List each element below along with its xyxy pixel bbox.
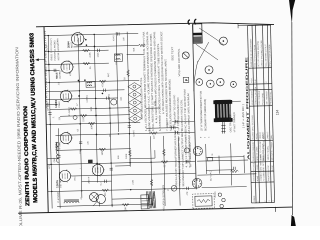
svg-text:OSC TRIMMER: OSC TRIMMER — [229, 114, 232, 132]
svg-text:4: 4 — [273, 200, 275, 201]
svg-text:GENERATOR FREQUENCY: GENERATOR FREQUENCY — [252, 141, 255, 161]
junction J21 — [130, 189, 131, 190]
IF transformer T2 coils — [87, 82, 91, 86]
resistor R10 — [127, 70, 130, 77]
output transformer winding — [64, 201, 79, 203]
IF transformer T1 coils — [116, 55, 121, 60]
dial pulley A — [219, 37, 227, 45]
svg-text:DET-AF: DET-AF — [59, 179, 62, 188]
pointer box P — [183, 77, 189, 82]
svg-text:150K: 150K — [98, 52, 100, 58]
svg-text:2ND IF: 2ND IF — [88, 176, 90, 184]
svg-text:CHECK TRACKING LOW END: CHECK TRACKING LOW END — [260, 40, 264, 67]
junction cluster V1 — [81, 43, 83, 45]
table column line 2 — [251, 181, 274, 184]
svg-text:ADJUST TRIMMERS: ADJUST TRIMMERS — [251, 90, 254, 105]
scan artifact: gutter wedge top right — [289, 0, 295, 24]
junction J12 — [81, 190, 82, 191]
candohm resistor element — [197, 199, 210, 202]
capacitor C12 — [57, 155, 60, 157]
staircase wire — [115, 150, 155, 166]
capacitor C3 — [104, 89, 106, 92]
svg-text:MAX. ANTENNA OUTPUT: MAX. ANTENNA OUTPUT — [264, 43, 268, 66]
table column line 9 — [249, 67, 272, 70]
svg-text:OSC. TRIMMER: OSC. TRIMMER — [259, 90, 261, 105]
junction J6 — [50, 164, 51, 165]
wire run v11 — [47, 161, 195, 164]
wire run v17 — [172, 120, 194, 122]
resistor R15 — [150, 179, 153, 186]
frame left border — [18, 207, 292, 213]
tuning gang mounting ear 2 — [194, 19, 196, 24]
trimmer circle 2 — [206, 80, 214, 88]
wire stub g — [146, 127, 178, 130]
table column line 1 — [252, 201, 275, 204]
junction J7 — [51, 191, 52, 192]
svg-text:600 KC: 600 KC — [263, 132, 265, 139]
junction J8 — [93, 34, 94, 35]
wire run v9 — [55, 132, 194, 135]
wire run v10 — [56, 149, 131, 151]
svg-text:.1 MFD: .1 MFD — [257, 164, 259, 171]
filter cap circle 3 — [220, 204, 223, 207]
tube V3 12AT6 det-af — [60, 89, 73, 102]
svg-text:180K: 180K — [126, 153, 128, 159]
resistor R16 — [163, 149, 166, 156]
wire run v4 — [45, 80, 139, 82]
junction J1 — [47, 35, 48, 36]
wire stub h — [146, 107, 160, 109]
junction J14 — [110, 162, 111, 163]
tuning gang can band — [193, 33, 202, 36]
wire bus h8 — [151, 136, 153, 206]
frame right border — [36, 21, 274, 30]
capacitor C5 — [175, 120, 177, 123]
junction J24 — [164, 188, 165, 189]
corner tick below border — [274, 207, 276, 212]
svg-text:22K: 22K — [123, 36, 125, 40]
svg-text:56K: 56K — [133, 47, 135, 51]
wire run v14 — [57, 204, 152, 206]
table column line 7 — [249, 88, 272, 91]
svg-text:CONV.: CONV. — [59, 101, 61, 108]
junction J16 — [95, 98, 96, 99]
power wiring branch 4 — [243, 155, 245, 173]
choke coil near V4 — [56, 142, 58, 162]
wire bus h3 — [78, 38, 82, 198]
socket 12BE6 pictorial — [192, 178, 202, 188]
dial pulley diamond 2 — [128, 106, 141, 114]
capacitor C14 — [105, 180, 107, 183]
table column line 8 — [249, 83, 272, 86]
dial pulley diamond 4 — [128, 90, 141, 98]
wire stub e — [112, 197, 152, 200]
dial pulley B — [205, 66, 213, 74]
rotated scanned page content — [14, 17, 293, 231]
speaker magnet circle — [89, 192, 98, 201]
tube V6 socket circle — [92, 163, 105, 176]
junction J26 — [179, 173, 180, 174]
svg-text:2.2M: 2.2M — [133, 180, 135, 185]
svg-text:AVC: AVC — [107, 72, 110, 77]
dial cord run 2 — [197, 42, 209, 62]
svg-text:12BE6: 12BE6 — [54, 99, 58, 108]
svg-text:ADJ.: ADJ. — [250, 77, 253, 83]
dark component blob — [88, 160, 93, 164]
svg-text:NONE: NONE — [257, 175, 259, 181]
junction J25 — [178, 161, 179, 162]
wire run v12 — [71, 173, 195, 176]
junction J15 — [111, 204, 112, 205]
svg-text:470K: 470K — [70, 71, 72, 77]
svg-text:MAX. OUTPUT I-F ALIGN: MAX. OUTPUT I-F ALIGN — [253, 44, 257, 67]
capacitor C4 — [107, 97, 109, 100]
wire run v5 — [45, 90, 124, 92]
junction J2 — [48, 51, 49, 52]
svg-text:I-F ANT TRIMMER: I-F ANT TRIMMER — [233, 112, 236, 132]
svg-text:GEN. COUPLING: GEN. COUPLING — [253, 163, 255, 171]
svg-text:LOOP: LOOP — [272, 164, 274, 170]
power wiring branch 3 — [230, 143, 233, 185]
svg-text:2: 2 — [265, 201, 267, 202]
tuning gang small circle — [111, 99, 117, 105]
svg-text:40+40: 40+40 — [215, 191, 217, 198]
trimmer circle 4 — [230, 81, 236, 87]
table notch — [237, 23, 239, 28]
svg-text:10MEG: 10MEG — [91, 122, 93, 130]
scan artifact: gutter line — [291, 22, 294, 215]
wire run v15 — [60, 115, 130, 117]
capacitor C10 — [110, 168, 113, 170]
line resistor — [230, 170, 238, 173]
loop antenna lead above frame — [35, 58, 45, 61]
wire bus h2 — [58, 128, 60, 208]
tube V5 12BE6 converter — [59, 169, 72, 182]
svg-text:GRID OF 12BE6: GRID OF 12BE6 — [256, 147, 258, 161]
frame inner divider (schematic/pictorial) — [192, 24, 196, 189]
output transformer internal lines — [141, 198, 148, 206]
osc transformer top wire — [231, 100, 241, 102]
wire run v3 — [45, 63, 109, 64]
trimmer circle 3 — [216, 78, 224, 86]
wire bus h10 — [179, 138, 181, 206]
filter cap circle 1 — [218, 193, 221, 196]
svg-text:P-M SPKR: P-M SPKR — [58, 191, 60, 202]
junction J3 — [48, 64, 49, 65]
svg-text:RECHECK ALL: RECHECK ALL — [269, 91, 272, 104]
wire run v6 — [46, 98, 118, 100]
wire bus h9 — [164, 136, 166, 206]
svg-text:150MA: 150MA — [56, 38, 59, 46]
svg-text:600-1620 KC SWEEP: 600-1620 KC SWEEP — [271, 141, 273, 160]
capacitor C11 — [48, 113, 51, 115]
table row line 2 — [252, 25, 256, 202]
speaker cone lines — [91, 194, 100, 207]
capacitor C7 — [186, 160, 188, 163]
wire bus h1 — [48, 36, 52, 209]
ballast box — [208, 158, 213, 161]
junction J11 — [80, 149, 81, 150]
svg-text:12AT6: 12AT6 — [55, 180, 59, 188]
capacitor C9 — [79, 142, 82, 144]
svg-text:3.3MEG: 3.3MEG — [87, 95, 89, 103]
capacitor C16 — [171, 126, 173, 129]
junction J10 — [79, 90, 80, 91]
frame top border — [44, 27, 48, 213]
svg-text:FINAL TOUCH-UP ALIGN: FINAL TOUCH-UP ALIGN — [268, 44, 272, 66]
svg-text:I-F AMP: I-F AMP — [58, 141, 61, 150]
svg-text:3: 3 — [269, 200, 271, 201]
volume control pot — [182, 52, 189, 59]
filter cap circle 2 — [222, 198, 225, 201]
svg-text:47K: 47K — [88, 140, 90, 144]
svg-text:455 KC: 455 KC — [256, 132, 258, 139]
wire stub f — [127, 53, 144, 55]
svg-text:1400 KC: 1400 KC — [267, 131, 269, 139]
power wiring run 2b — [202, 187, 247, 188]
capacitor C1 — [117, 32, 119, 35]
svg-text:HTR: HTR — [49, 164, 51, 169]
IF transformer T2 box — [86, 82, 95, 88]
resistor R12 — [161, 161, 168, 164]
junction J27 — [118, 133, 119, 134]
svg-text:LOOP: LOOP — [46, 44, 48, 51]
dial pulley diamond 5 — [128, 82, 141, 90]
svg-text:47K: 47K — [187, 191, 189, 195]
svg-text:OSC: OSC — [74, 176, 76, 181]
output transformer hatching — [146, 191, 155, 208]
wire run v1 — [44, 33, 138, 35]
junction extra — [78, 80, 80, 82]
svg-text:ANT. TRIMMER: ANT. TRIMMER — [265, 90, 268, 104]
svg-text:2200: 2200 — [83, 116, 85, 122]
resistor R5 — [88, 122, 95, 125]
svg-text:OSC: OSC — [54, 157, 56, 162]
wire stub d — [82, 180, 112, 183]
grid cap small circle — [73, 115, 77, 119]
svg-text:SET OSC. RANGE HIGH END: SET OSC. RANGE HIGH END — [257, 40, 261, 67]
power wiring branch 2 — [218, 156, 220, 174]
resistor R1 — [83, 49, 90, 52]
wire run v8 — [46, 122, 140, 124]
power wiring run 2 — [197, 174, 256, 175]
table row line 6 — [271, 25, 275, 202]
svg-text:LOOP: LOOP — [268, 165, 270, 171]
tube V1 35W4 rectifier — [71, 32, 85, 46]
svg-text:50C5: 50C5 — [55, 72, 59, 79]
socket 35W4 pictorial — [193, 146, 202, 155]
wire stub a — [45, 69, 59, 71]
output transformer box — [141, 195, 149, 209]
svg-text:RECT.: RECT. — [71, 41, 73, 48]
capacitor C6 — [176, 131, 178, 134]
junction J19 — [129, 133, 130, 134]
junction J22 — [151, 203, 152, 204]
table row line 3 — [256, 25, 260, 202]
tuning gang can body — [193, 24, 202, 43]
svg-text:RADIATED: RADIATED — [267, 171, 270, 181]
capacitor C13 — [54, 69, 56, 72]
candohm dashed outline — [193, 194, 215, 209]
svg-text:REPEAT STEP ABOVE: REPEAT STEP ABOVE — [262, 140, 265, 161]
power wiring run 1b — [206, 156, 244, 159]
wire bus h5 — [110, 97, 112, 207]
tube V2 50C5 output — [61, 60, 75, 74]
resistor R11 — [150, 132, 157, 135]
junction J9 — [79, 81, 80, 82]
tuning gang mounting ear 1 — [188, 20, 190, 25]
wire run v2 — [45, 50, 109, 51]
scan artifact: gutter blob bottom — [291, 215, 296, 226]
resistor R2 — [83, 62, 90, 65]
IF transformer T1 box — [114, 54, 122, 62]
wire run v13 — [48, 188, 196, 191]
svg-text:1MEG: 1MEG — [102, 149, 104, 156]
resistor R13 — [80, 114, 87, 117]
svg-text:B+ 115V: B+ 115V — [48, 102, 50, 111]
wire bus h4 — [94, 34, 97, 182]
dial cord run 1 — [196, 44, 218, 61]
svg-text:OPER.: OPER. — [254, 195, 256, 202]
svg-text:MOTOR SWITCH: MOTOR SWITCH — [58, 44, 60, 60]
junction J23 — [150, 161, 151, 162]
capacitor C8 — [187, 187, 189, 190]
svg-text:33K: 33K — [125, 206, 127, 210]
dial cord run 3 — [199, 28, 224, 46]
resistor R7 — [102, 189, 109, 192]
output transformer core — [64, 200, 79, 201]
power wire y170 — [206, 169, 233, 172]
table row line 5 — [267, 25, 271, 202]
svg-text:100K: 100K — [91, 106, 93, 112]
osc transformer pictorial can — [213, 100, 232, 122]
tube V4 12BA6 if amp — [60, 131, 73, 144]
resistor R9 — [129, 150, 132, 157]
svg-text:1400 KC SIGNAL: 1400 KC SIGNAL — [266, 146, 269, 161]
svg-text:RADIO DIAL SETTING: RADIO DIAL SETTING — [251, 114, 255, 139]
table row line 4 — [263, 25, 267, 202]
trimmer circle 1 — [196, 79, 203, 86]
svg-text:35W4 SOCKET: 35W4 SOCKET — [190, 142, 192, 160]
resistor R6 — [99, 148, 106, 151]
svg-text:OUTPUT: OUTPUT — [60, 69, 62, 79]
svg-text:IF 455KC: IF 455KC — [69, 106, 71, 116]
capacitor C15 — [128, 126, 131, 128]
wire bus h7 — [127, 32, 130, 167]
svg-text:DIAL: DIAL — [270, 135, 273, 139]
svg-text:DUMMY ANTENNA: DUMMY ANTENNA — [252, 172, 255, 181]
wire run v16 — [73, 45, 138, 46]
svg-text:ROCK GANG: ROCK GANG — [261, 93, 264, 105]
svg-text:220K: 220K — [90, 52, 92, 58]
svg-text:117 V. A.C.: 117 V. A.C. — [209, 170, 212, 181]
line capacitor — [233, 167, 235, 170]
osc transformer stem — [221, 122, 225, 134]
pilot small circle — [184, 148, 189, 153]
speaker frame circle — [96, 194, 105, 203]
junction J28 — [95, 108, 96, 109]
power wiring run 1 — [197, 160, 248, 161]
svg-text:GANG FULLY OPEN: GANG FULLY OPEN — [254, 86, 257, 104]
dial pulley diamond 1 — [129, 114, 142, 122]
junction J5 — [50, 124, 51, 125]
resistor R3 — [99, 80, 106, 83]
candohm resistor box — [195, 196, 212, 206]
svg-text:134: 134 — [276, 110, 280, 116]
tuning gang can base shade — [193, 36, 201, 42]
table top right edge — [238, 24, 270, 27]
dial pulley diamond 3 — [128, 98, 141, 106]
wire bus h6 — [116, 32, 118, 132]
svg-text:470K: 470K — [102, 82, 104, 88]
power wiring branch 1 — [205, 144, 208, 174]
table column line 6 — [249, 105, 272, 108]
junction J4 — [49, 82, 50, 83]
table column line 4 — [251, 161, 274, 164]
svg-text:OSCILLATOR B+ SECTION NOTE: OSCILLATOR B+ SECTION NOTE — [162, 185, 166, 211]
junction J20 — [129, 162, 130, 163]
resistor R4 — [70, 108, 77, 111]
svg-text:35W4: 35W4 — [66, 41, 70, 48]
junction J18 — [128, 122, 129, 123]
svg-text:SEE TEXT: SEE TEXT — [171, 46, 174, 61]
table column line 3 — [251, 170, 274, 173]
table row line 1 — [248, 25, 252, 202]
dial cord run 4 — [193, 61, 198, 91]
svg-text:12AT6: 12AT6 — [132, 129, 135, 136]
wire stub c — [47, 157, 59, 159]
svg-text:1: 1 — [258, 201, 260, 202]
table column line 5 — [250, 139, 273, 142]
junction J17 — [109, 107, 110, 108]
wire stub b — [46, 103, 58, 105]
table column line 10 — [248, 24, 271, 27]
junction J13 — [110, 122, 111, 123]
resistor R14 — [138, 44, 145, 47]
svg-text:40-40: 40-40 — [113, 35, 115, 41]
pilot lamp circle — [171, 185, 177, 191]
wire run v7 — [50, 108, 130, 110]
resistor R8 — [122, 203, 129, 206]
capacitor C2 — [98, 49, 100, 52]
